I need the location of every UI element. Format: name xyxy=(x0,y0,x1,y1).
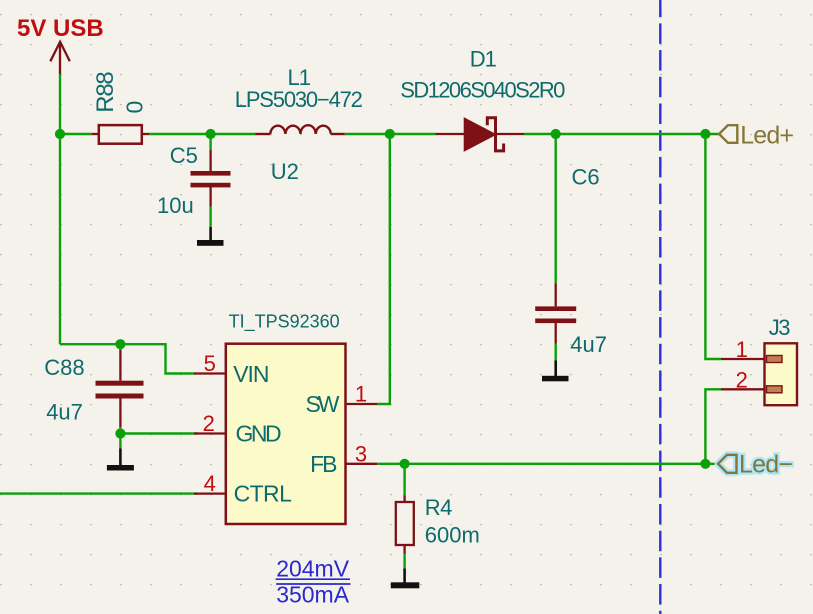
node: C88 bottom xyxy=(115,428,125,438)
wire: C88 stubs xyxy=(119,344,121,350)
svg-text:204mV: 204mV xyxy=(276,556,350,582)
svg-text:R4: R4 xyxy=(425,495,452,520)
pin 4 CTRL xyxy=(194,492,226,494)
node: FB/R4 xyxy=(400,459,410,469)
wire: FB horizontal to Led- xyxy=(377,463,718,465)
pin 2 GND xyxy=(194,432,226,434)
hierarchical label Led+ xyxy=(719,122,794,150)
svg-text:SW: SW xyxy=(305,391,339,417)
resistor R4 xyxy=(396,496,414,554)
svg-text:TI_TPS92360: TI_TPS92360 xyxy=(229,312,340,333)
node: C88 top xyxy=(115,339,125,349)
ground (C6) xyxy=(542,361,569,382)
power symbol arrow xyxy=(50,42,70,74)
wire: main top horizontal left xyxy=(60,133,92,135)
connector J3 body xyxy=(765,343,798,405)
ground (C88) xyxy=(107,449,134,471)
diode D1 xyxy=(436,118,525,151)
resistor R1 (R88) leads xyxy=(92,133,149,135)
pin 1 SW xyxy=(346,403,378,405)
wire: SW to top node xyxy=(377,134,390,404)
svg-text:2: 2 xyxy=(736,367,748,392)
pin 5 VIN xyxy=(194,372,226,374)
node: rail/top wire xyxy=(55,129,65,139)
svg-text:VIN: VIN xyxy=(233,361,268,387)
svg-text:GND: GND xyxy=(236,421,282,447)
wire: VIN feed from rail xyxy=(60,344,196,373)
hierarchical label Led- (highlighted) xyxy=(718,451,792,479)
svg-text:FB: FB xyxy=(310,451,337,477)
wire: R4 stubs xyxy=(403,464,405,496)
svg-text:C88: C88 xyxy=(44,355,84,380)
wire: C5 stubs xyxy=(209,134,211,150)
node: C6 tap xyxy=(551,129,561,139)
svg-text:Led−: Led− xyxy=(739,451,792,479)
svg-text:1: 1 xyxy=(736,337,748,362)
svg-text:U2: U2 xyxy=(271,159,299,184)
capacitor C88 xyxy=(96,350,144,427)
svg-text:2: 2 xyxy=(203,411,215,436)
svg-text:0: 0 xyxy=(122,101,148,114)
capacitor C6 xyxy=(535,284,576,344)
op-amp U2 (TI_TPS92360) body xyxy=(226,344,346,524)
svg-text:J3: J3 xyxy=(769,315,791,340)
node: Led- branch xyxy=(700,459,710,469)
ground (R4) xyxy=(391,569,420,589)
svg-text:SD1206S040S2R0: SD1206S040S2R0 xyxy=(400,78,565,103)
node: SW tap xyxy=(385,129,395,139)
wire: CTRL from left edge xyxy=(0,492,197,494)
pin 3 FB xyxy=(346,463,378,465)
wire: GND pin wire xyxy=(120,432,197,434)
svg-text:350mA: 350mA xyxy=(276,581,350,607)
wire: Led+ branch down to J3 pin1 xyxy=(705,134,721,359)
svg-text:4u7: 4u7 xyxy=(46,400,83,425)
junction nodes xyxy=(55,129,711,469)
wire: C6 stubs xyxy=(555,134,557,284)
svg-text:5V USB: 5V USB xyxy=(17,15,104,42)
J3 pin 2 xyxy=(721,388,765,390)
svg-text:C5: C5 xyxy=(170,143,198,168)
svg-text:CTRL: CTRL xyxy=(234,481,292,507)
J3 pin 1 xyxy=(721,358,765,360)
wire: 5V rail vertical xyxy=(0,74,721,569)
capacitor C5 xyxy=(191,150,231,207)
node: Led+ branch xyxy=(700,129,710,139)
svg-text:3: 3 xyxy=(355,442,367,467)
svg-text:LPS5030−472: LPS5030−472 xyxy=(235,87,363,112)
svg-text:5: 5 xyxy=(204,351,216,376)
node: C5 tap xyxy=(206,129,216,139)
svg-text:4u7: 4u7 xyxy=(570,332,607,357)
svg-text:D1: D1 xyxy=(470,46,497,71)
dashed partition line xyxy=(659,0,661,614)
svg-text:Led+: Led+ xyxy=(740,122,793,150)
svg-text:1: 1 xyxy=(355,382,367,407)
wire: J3 pin2 branch xyxy=(705,389,721,464)
svg-text:4: 4 xyxy=(204,471,216,496)
inductor L1 xyxy=(256,125,345,134)
svg-text:10u: 10u xyxy=(157,193,194,218)
ground (C5) xyxy=(197,227,224,246)
svg-text:R88: R88 xyxy=(92,72,119,113)
svg-text:C6: C6 xyxy=(572,165,600,190)
resistor R88 body xyxy=(99,125,142,144)
svg-text:600m: 600m xyxy=(425,522,480,547)
